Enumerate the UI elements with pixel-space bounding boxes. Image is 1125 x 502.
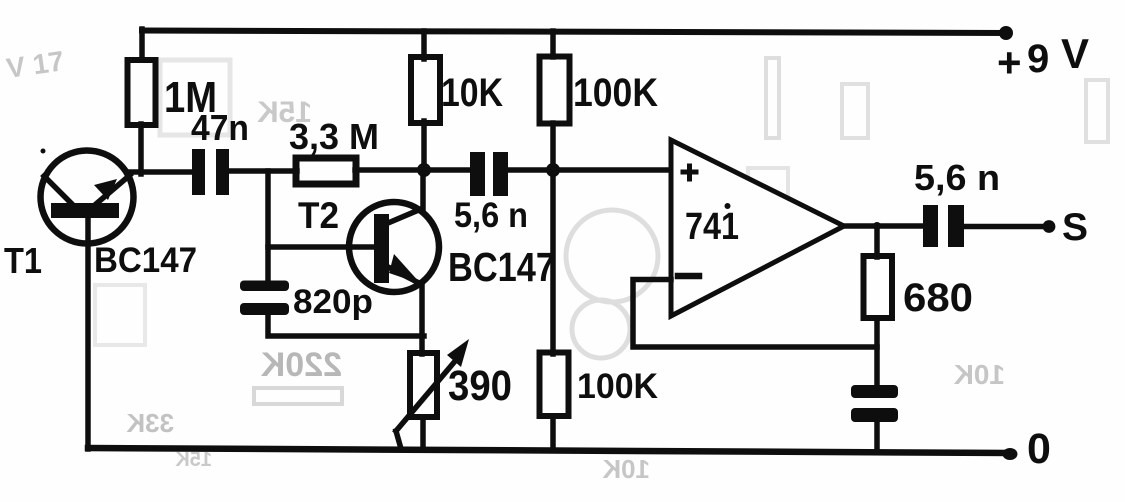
wire: 47n to node A — [228, 168, 297, 174]
variable resistor 390 — [396, 339, 469, 449]
wire: 10K node down to T2 collector — [420, 170, 426, 212]
svg-text:10K: 10K — [441, 71, 503, 115]
svg-text:T1: T1 — [4, 240, 42, 281]
svg-text:741: 741 — [685, 206, 739, 248]
wire: T1 collector to 47n capacitor — [129, 169, 193, 175]
+9V supply rail — [142, 31, 1006, 34]
op-amp U1 741 — [671, 140, 844, 316]
junction node C — [546, 163, 560, 177]
svg-text:390: 390 — [448, 362, 512, 410]
capacitor 820p — [240, 281, 424, 337]
svg-text:0: 0 — [1027, 425, 1051, 473]
0V (ground) rail — [88, 448, 1009, 453]
svg-text:15K: 15K — [175, 449, 212, 471]
svg-text:100K: 100K — [577, 367, 658, 406]
svg-text:820p: 820p — [293, 283, 373, 321]
resistor 10K — [411, 31, 440, 170]
wire: node B to 5,6n — [424, 167, 471, 173]
transistor T1 (BC147) — [41, 149, 134, 244]
svg-text:220K: 220K — [260, 346, 342, 384]
svg-text:9: 9 — [1027, 37, 1049, 81]
wire: op-amp inverting input feedback loop — [633, 280, 877, 348]
resistor 100K (lower) — [540, 170, 569, 449]
junction: output / 680 — [873, 222, 881, 230]
svg-text:5,6 n: 5,6 n — [914, 157, 1000, 198]
capacitor 47n — [192, 149, 229, 195]
wire: output capacitor to S terminal — [964, 224, 1045, 230]
svg-text:3,3 M: 3,3 M — [289, 116, 379, 157]
capacitor 5,6n (output) — [923, 205, 964, 247]
svg-text:T2: T2 — [298, 195, 339, 236]
+9V label — [997, 30, 1089, 86]
svg-text:680: 680 — [903, 276, 973, 320]
svg-text:5,6 n: 5,6 n — [454, 196, 528, 235]
0 terminal dot — [1003, 448, 1018, 460]
S terminal dot — [1043, 220, 1056, 233]
svg-text:BC147: BC147 — [448, 244, 555, 290]
wire: op-amp output — [842, 223, 923, 229]
resistor 3,3M — [296, 158, 424, 184]
wire: node C to op-amp non-inverting input — [553, 167, 670, 173]
svg-text:10K: 10K — [954, 359, 1005, 390]
capacitor (output filter, unlabeled) — [851, 385, 898, 449]
svg-text:V: V — [1061, 30, 1089, 77]
svg-text:V 17: V 17 — [5, 45, 66, 84]
+9V terminal dot — [999, 26, 1013, 40]
svg-text:47n: 47n — [191, 107, 249, 148]
svg-text:S: S — [1062, 206, 1088, 249]
capacitor 5,6n (interstage) — [470, 152, 508, 196]
transistor T2 (BC147) — [349, 202, 439, 292]
wire: node A to T2 base — [268, 244, 376, 250]
wire: 5,6n to node C — [508, 167, 553, 173]
wire: T1 emitter lead down to 0V rail — [85, 215, 91, 449]
wire: node A branch down to 820p — [265, 171, 271, 283]
svg-text:33K: 33K — [126, 408, 174, 438]
junction node B — [417, 163, 431, 177]
svg-text:10K: 10K — [602, 454, 650, 484]
svg-text:+: + — [997, 39, 1022, 86]
wire: T2 emitter down to 390 — [419, 283, 425, 354]
svg-text:BC147: BC147 — [94, 241, 197, 280]
resistor 1M — [128, 29, 156, 174]
resistor 100K (upper) — [540, 31, 570, 170]
resistor 680 — [864, 226, 893, 386]
svg-text:100K: 100K — [573, 71, 658, 115]
